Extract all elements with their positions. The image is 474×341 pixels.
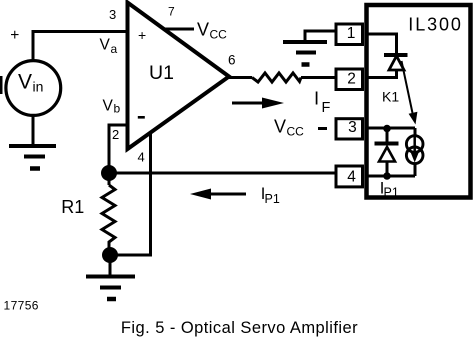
label IF xyxy=(314,88,331,117)
wire (op-amp pin 4 down and left to R1 bottom) xyxy=(110,132,151,255)
svg-text:F: F xyxy=(322,100,331,116)
current source (controlled photocurrent symbol) xyxy=(406,128,423,176)
pin 4 box xyxy=(336,166,363,187)
svg-text:V: V xyxy=(103,98,114,115)
svg-text:IL300: IL300 xyxy=(408,14,463,34)
label IP1 xyxy=(261,185,280,206)
svg-text:1: 1 xyxy=(347,25,356,42)
wire (resistor to IL300 pin 2) xyxy=(301,76,336,79)
ground (below Vin) xyxy=(9,146,56,169)
svg-text:V: V xyxy=(197,20,209,40)
wire (junction to IL300 pin 4) xyxy=(109,172,336,175)
svg-text:CC: CC xyxy=(287,125,305,139)
svg-text:V: V xyxy=(274,116,286,136)
wire (pin 7 to Vcc) xyxy=(165,28,194,31)
svg-text:b: b xyxy=(114,102,121,116)
pin 3 box xyxy=(336,119,363,139)
wire (pin 1 to LED anode, inside IL300) xyxy=(368,34,397,55)
node Vb label xyxy=(103,98,121,116)
wire (inverting input stub, pin 2) xyxy=(109,125,127,173)
svg-text:6: 6 xyxy=(228,53,236,68)
svg-text:a: a xyxy=(111,42,118,56)
svg-text:K1: K1 xyxy=(382,88,399,104)
wire (Vin bottom to ground) xyxy=(32,116,35,146)
IC IL300 outline xyxy=(367,5,471,198)
wire (R1 bottom to ground) xyxy=(109,255,112,276)
svg-text:Fig. 5 - Optical Servo Amplifi: Fig. 5 - Optical Servo Amplifier xyxy=(121,319,358,337)
svg-text:in: in xyxy=(33,79,44,95)
svg-text:V: V xyxy=(18,71,32,94)
resistor (series output resistor) xyxy=(252,73,301,82)
svg-text:CC: CC xyxy=(210,28,228,42)
svg-text:17756: 17756 xyxy=(4,299,39,313)
wire (IL300 pin 1 to ground) xyxy=(305,31,336,42)
svg-text:4: 4 xyxy=(347,168,356,185)
node junction dot (R1 top / inverting input / IP1 wire) xyxy=(101,165,117,181)
net Vcc (IL300 pin 3 supply) xyxy=(274,116,304,138)
wire (Vcc stub to pin 3 box) xyxy=(318,127,327,130)
svg-text:P1: P1 xyxy=(265,192,280,206)
photodiode P1 xyxy=(375,128,399,176)
svg-text:+: + xyxy=(138,27,146,43)
ground (at IL300 pin 1) xyxy=(283,42,327,65)
svg-text:3: 3 xyxy=(109,7,116,22)
svg-text:V: V xyxy=(100,37,111,54)
svg-text:I: I xyxy=(314,88,319,109)
arrow IF (forward current direction) xyxy=(232,98,284,109)
net Vcc (op-amp supply) xyxy=(197,20,227,42)
svg-text:4: 4 xyxy=(138,149,145,164)
pin 1 box xyxy=(336,24,363,45)
LED K1 (emitter diode) xyxy=(384,55,408,70)
wire (op-amp output to series resistor) xyxy=(229,76,252,79)
arrow IP1 (photocurrent direction) xyxy=(190,189,246,200)
svg-text:7: 7 xyxy=(168,4,175,18)
wire (pin 4 to photodiode bottom rail) xyxy=(368,175,415,178)
resistor R1 xyxy=(61,178,115,249)
node junction dot (photodiode top) xyxy=(383,125,391,133)
voltage source Vin xyxy=(6,61,61,116)
op-amp U1 xyxy=(128,3,230,150)
node - (cut-off minus mark at left edge) xyxy=(0,76,3,94)
ground (below R1) xyxy=(86,277,135,300)
svg-text:+: + xyxy=(10,27,19,44)
label IP1 (inside IL300) xyxy=(380,180,399,200)
node junction dot (R1 bottom) xyxy=(102,247,118,263)
svg-text:R1: R1 xyxy=(61,197,84,217)
arrow K1 optical coupling xyxy=(402,61,418,125)
svg-text:2: 2 xyxy=(112,127,119,142)
node junction dot (photodiode bottom) xyxy=(383,172,391,180)
svg-text:P1: P1 xyxy=(384,186,399,200)
svg-text:U1: U1 xyxy=(149,62,174,84)
svg-text:2: 2 xyxy=(347,70,356,87)
pin 2 box xyxy=(336,69,363,90)
wire (LED bottom to pin 2) xyxy=(368,70,397,78)
wire (Vin top to op-amp non-inverting input, pin 3) xyxy=(33,32,127,61)
wire (pin 3 to photodiode and current source, top rail) xyxy=(368,127,415,130)
node Va label xyxy=(100,37,118,57)
svg-text:3: 3 xyxy=(348,119,357,136)
